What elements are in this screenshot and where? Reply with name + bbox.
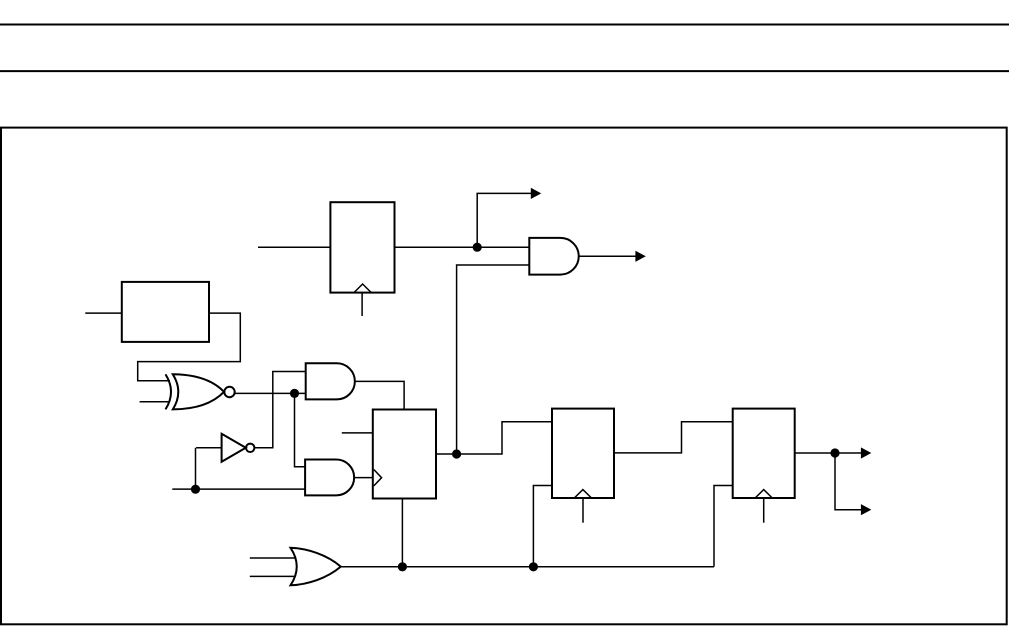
wire riser to U7 enable — [533, 486, 552, 568]
xnor-gate U2 — [166, 374, 172, 409]
clock wedge U1 — [354, 284, 371, 293]
figure frame — [1, 128, 1007, 625]
clock wedge U6 — [374, 470, 382, 486]
and-gate U4b — [305, 460, 354, 496]
wire U4a output to FF2 top — [355, 381, 404, 409]
and-gate U4a — [306, 363, 355, 399]
wire U9 output bus — [341, 566, 714, 568]
node J2 — [191, 485, 200, 494]
inverter U3 — [222, 434, 246, 462]
wire U2 lower input — [140, 401, 170, 403]
clock stub U1 — [361, 293, 363, 316]
wire B1 input — [85, 312, 122, 314]
arrow output top — [531, 188, 541, 199]
wire U4b lower input — [172, 488, 305, 490]
wire J1 down to AND U4 — [295, 393, 306, 466]
node J3 — [452, 449, 461, 458]
flip-flop U7 — [552, 409, 614, 498]
bubble U3 — [246, 444, 254, 452]
wire U5 lower input riser — [457, 265, 530, 454]
clock stub U8 — [763, 498, 765, 523]
wire U7 output — [614, 422, 733, 453]
wire U3 output riser to AND1 — [254, 372, 305, 448]
wire U1 Q output to AND U5 — [395, 246, 530, 248]
wire riser to U8 enable — [714, 486, 733, 567]
wire U1 D input — [258, 246, 330, 248]
wire J2 riser to inverter — [195, 448, 197, 489]
arrow output right 1 — [861, 447, 871, 458]
wire U3 input — [196, 447, 222, 449]
wire U4b output — [354, 477, 373, 479]
wire U6 D stub — [342, 432, 373, 434]
wire B1 output to xnor — [138, 313, 241, 381]
block B1 — [122, 282, 209, 342]
clock stub U7 — [582, 498, 584, 523]
bubble U2 — [224, 387, 234, 397]
node J6 — [398, 562, 407, 571]
node J4 — [830, 448, 839, 457]
arrow output U5 — [635, 251, 645, 262]
or-gate U9 — [291, 548, 341, 586]
wire U6 output — [436, 422, 552, 454]
wire J4 down output — [835, 453, 861, 510]
arrow output right 2 — [861, 504, 871, 515]
node J1 — [290, 389, 299, 398]
wire U5 output — [579, 255, 636, 257]
wire J5 up — [477, 193, 531, 247]
wire U2 output — [235, 392, 306, 394]
flip-flop U1 — [330, 202, 394, 292]
wire U9 input 2 — [250, 575, 295, 577]
wire U9 input 1 — [250, 557, 295, 559]
wire U8 output — [795, 452, 861, 454]
wire OR riser to U6 bottom — [401, 499, 403, 568]
node J7 — [529, 562, 538, 571]
top horizontal rule 2 — [0, 70, 1009, 72]
and-gate U5 — [529, 238, 578, 275]
node J5 — [473, 243, 482, 252]
clock wedge U8 — [755, 490, 772, 498]
clock wedge U7 — [574, 490, 591, 498]
flip-flop U6 — [373, 410, 436, 499]
top horizontal rule 1 — [0, 24, 1009, 26]
flip-flop U8 — [733, 409, 795, 498]
